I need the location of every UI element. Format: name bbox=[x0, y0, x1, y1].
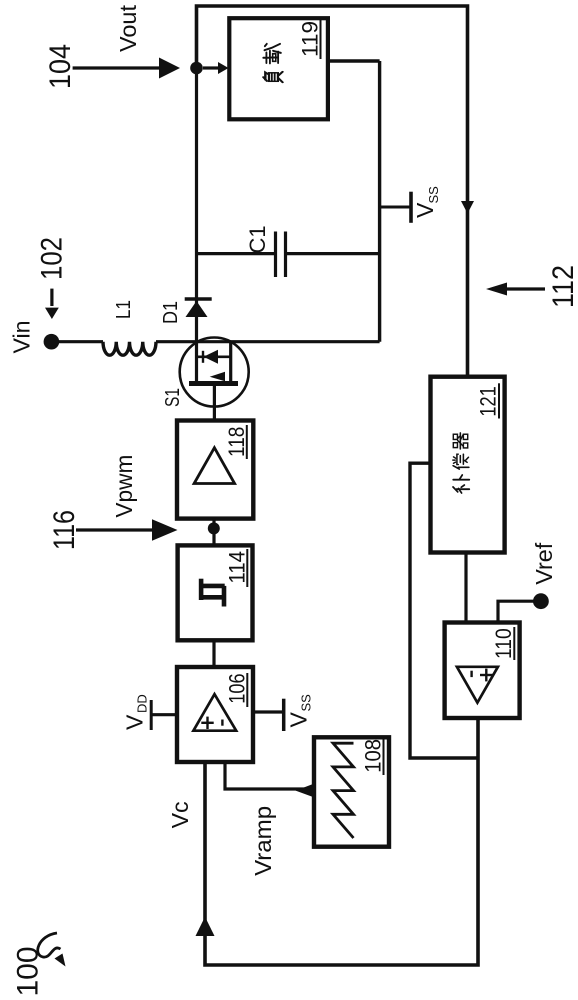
svg-text:108: 108 bbox=[361, 739, 386, 773]
svg-text:L1: L1 bbox=[113, 300, 135, 319]
svg-text:S1: S1 bbox=[162, 388, 184, 407]
svg-text:Vout: Vout bbox=[115, 4, 141, 52]
svg-text:100: 100 bbox=[12, 947, 45, 997]
svg-text:104: 104 bbox=[44, 44, 77, 89]
svg-text:112: 112 bbox=[547, 265, 578, 308]
svg-text:116: 116 bbox=[48, 510, 81, 550]
svg-text:110: 110 bbox=[491, 628, 516, 659]
svg-text:V: V bbox=[412, 202, 438, 218]
svg-text:Vpwm: Vpwm bbox=[111, 455, 137, 518]
svg-text:114: 114 bbox=[225, 551, 250, 584]
svg-text:SS: SS bbox=[299, 694, 314, 712]
svg-text:V: V bbox=[122, 714, 148, 730]
svg-text:D1: D1 bbox=[160, 301, 182, 324]
svg-text:C1: C1 bbox=[245, 226, 270, 254]
svg-text:119: 119 bbox=[298, 21, 323, 57]
svg-text:DD: DD bbox=[135, 694, 150, 713]
svg-text:118: 118 bbox=[224, 427, 249, 457]
svg-text:Vin: Vin bbox=[9, 321, 35, 354]
svg-text:102: 102 bbox=[36, 237, 69, 280]
svg-text:Vc: Vc bbox=[167, 801, 193, 828]
svg-text:Vref: Vref bbox=[531, 542, 557, 585]
svg-text:Vramp: Vramp bbox=[250, 806, 276, 876]
svg-text:SS: SS bbox=[426, 186, 441, 204]
svg-text:V: V bbox=[286, 712, 312, 728]
svg-text:121: 121 bbox=[476, 386, 501, 416]
svg-text:106: 106 bbox=[225, 673, 250, 703]
